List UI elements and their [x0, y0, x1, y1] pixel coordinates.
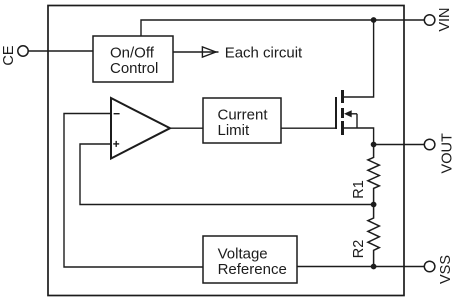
wire op-amp output to Current Limit: [170, 127, 203, 129]
node feedback junction: [371, 202, 377, 208]
op-amp minus sign: [114, 113, 120, 115]
channel segment bottom: [341, 121, 344, 135]
block Voltage Reference: [203, 236, 297, 283]
node VSS junction: [371, 264, 377, 270]
resistor R1: [351, 145, 379, 205]
wire non-inverting input to feedback node: [80, 144, 371, 205]
pin VOUT terminal circle: [424, 139, 435, 150]
svg-text:Current: Current: [218, 107, 269, 124]
wire CE to On/Off Control: [28, 50, 93, 52]
wire inverting input to Voltage Reference: [64, 114, 203, 268]
svg-text:R1: R1: [351, 180, 367, 199]
svg-text:Reference: Reference: [218, 261, 287, 278]
svg-text:Control: Control: [110, 60, 158, 77]
svg-text:VOUT: VOUT: [440, 133, 456, 173]
wire Current Limit output to MOSFET gate: [281, 127, 335, 129]
svg-text:VSS: VSS: [438, 255, 454, 284]
arrowhead to Each circuit: [202, 47, 216, 57]
resistor R2: [351, 205, 379, 267]
gate bar: [335, 97, 337, 129]
wire VOUT: [374, 144, 425, 146]
node VIN junction: [371, 17, 377, 23]
channel segment top: [341, 90, 344, 103]
transistor pass MOSFET: [336, 21, 374, 145]
pin VSS terminal circle: [424, 261, 435, 272]
svg-text:On/Off: On/Off: [110, 44, 155, 61]
wire Voltage Reference to VSS pin: [297, 266, 424, 268]
svg-text:VIN: VIN: [437, 8, 453, 32]
channel segment middle: [341, 108, 344, 118]
op-amp error amplifier: [111, 98, 170, 159]
source tap: [344, 128, 374, 145]
svg-text:Limit: Limit: [218, 122, 251, 139]
node VOUT junction: [371, 142, 377, 148]
block On/Off Control: [93, 36, 173, 82]
block Current Limit: [203, 98, 281, 143]
wire On/Off Control output to arrow: [173, 51, 219, 53]
svg-text:Voltage: Voltage: [218, 245, 268, 262]
wire On/Off Control top to VIN rail: [141, 20, 424, 36]
body arrow: [344, 110, 352, 117]
drain tap: [344, 21, 374, 97]
pin VIN terminal circle: [424, 15, 435, 26]
svg-text:R2: R2: [351, 240, 367, 259]
pin CE terminal circle: [18, 46, 28, 56]
op-amp plus sign: [113, 143, 119, 145]
svg-text:CE: CE: [1, 45, 17, 65]
svg-text:Each circuit: Each circuit: [225, 45, 303, 62]
IC boundary box: [48, 6, 404, 296]
